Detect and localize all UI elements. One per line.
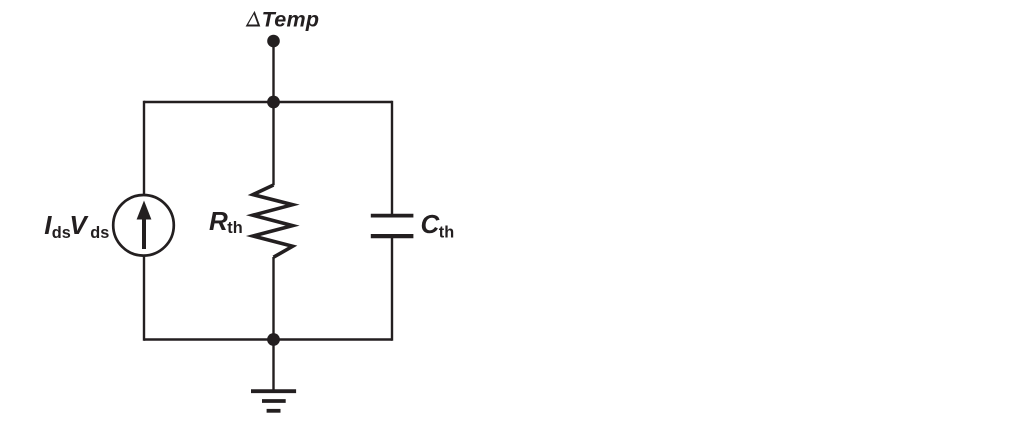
current source arrow head [137, 201, 152, 220]
resistor R_th zigzag [253, 185, 293, 257]
wire top rail [144, 101, 392, 103]
svg-text:th: th [227, 219, 242, 237]
current source I_ds V_ds circle [113, 195, 174, 256]
svg-text:ds: ds [90, 224, 109, 242]
wire bottom rail [144, 338, 392, 340]
wire left branch lower [143, 257, 145, 341]
svg-text:R: R [209, 206, 228, 236]
node top junction dot [267, 96, 280, 109]
node bottom junction dot [267, 333, 280, 346]
wire left branch upper [143, 101, 145, 195]
svg-text:th: th [439, 224, 454, 242]
wire resistor bottom lead [272, 257, 274, 340]
wire middle stub from ΔTemp node [272, 41, 274, 102]
svg-text:C: C [421, 209, 441, 239]
capacitor C_th bottom plate [371, 234, 414, 238]
label ΔTemp: delta outline glyph [246, 11, 261, 27]
svg-text:Temp: Temp [262, 7, 320, 31]
ground bar 3 [267, 409, 281, 413]
svg-text:V: V [69, 210, 89, 240]
ground bar 2 [262, 399, 286, 403]
wire ground stem [272, 340, 274, 392]
node ΔTemp terminal dot [267, 35, 280, 48]
wire resistor top lead [272, 102, 274, 185]
ground bar 1 [251, 389, 296, 393]
wire right branch lower [391, 238, 393, 341]
wire right branch upper [391, 101, 393, 215]
svg-text:ds: ds [52, 224, 71, 242]
capacitor C_th top plate [371, 214, 414, 218]
current source arrow shaft [142, 215, 146, 249]
